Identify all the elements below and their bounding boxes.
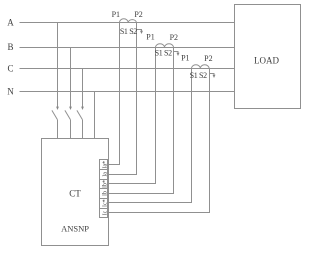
svg-text:P1: P1	[112, 10, 120, 19]
svg-text:Ib: Ib	[102, 191, 108, 196]
svg-text:Ia: Ia	[102, 172, 108, 177]
svg-text:LOAD: LOAD	[254, 56, 279, 66]
svg-text:S1 S2: S1 S2	[190, 71, 207, 80]
svg-text:P2: P2	[170, 33, 178, 42]
svg-text:Ic: Ic	[102, 210, 108, 215]
svg-text:B: B	[7, 42, 13, 52]
svg-text:P1: P1	[146, 32, 154, 41]
svg-text:Ib*: Ib*	[102, 180, 108, 188]
svg-text:A: A	[7, 18, 14, 28]
svg-text:ANSNP: ANSNP	[61, 224, 89, 234]
svg-text:N: N	[7, 87, 14, 97]
svg-text:P2: P2	[204, 54, 212, 63]
svg-text:C: C	[7, 64, 13, 74]
svg-text:Ia*: Ia*	[102, 161, 108, 169]
svg-text:Ic*: Ic*	[102, 199, 108, 207]
svg-text:P1: P1	[181, 54, 189, 63]
svg-text:S1 S2: S1 S2	[155, 49, 172, 58]
svg-text:P2: P2	[134, 10, 142, 19]
svg-text:CT: CT	[69, 189, 81, 199]
svg-text:S1 S2: S1 S2	[120, 27, 137, 36]
